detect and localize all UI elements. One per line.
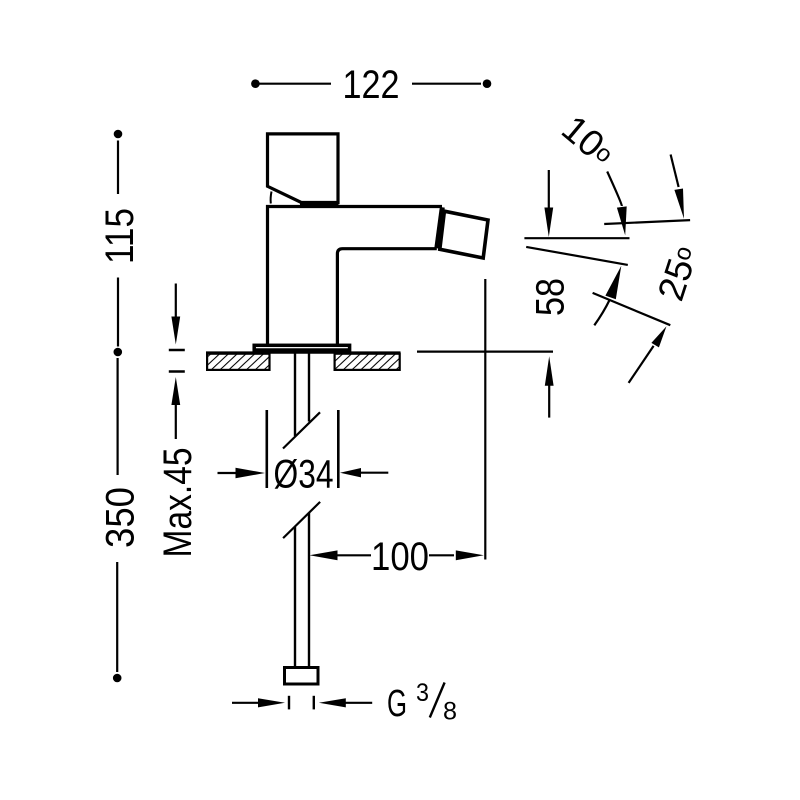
aerator 25 degree axis line [593,293,671,325]
25 degree label [650,241,706,306]
dimension 122 left line [258,83,331,85]
supply pipe left wall upper [294,353,296,436]
dimension O34 left arrow [218,472,238,474]
G3/8 left arrow [232,702,260,704]
svg-text:58: 58 [529,278,573,316]
dimension 350 lower line [116,562,118,672]
dimension 350 upper line [116,358,118,475]
pipe break lower slash [283,502,320,538]
dimension 115 lower line [117,278,119,347]
dimension Max.45 top tick [169,349,185,351]
dimension 115 top dot [114,130,123,139]
dimension 115 upper line [117,141,119,195]
nut [285,668,319,685]
G3/8 tick left [288,696,290,710]
dimension 58 label [529,278,573,316]
10 degree label [554,107,622,173]
dimension 100 left arrow [310,550,338,560]
dimension 122 right dot [483,79,492,88]
svg-text:Max.45: Max.45 [156,448,200,558]
pipe break upper slash [283,412,320,448]
dimension Max.45 upper leader line [175,284,177,318]
dimension Max.45 down arrowhead [171,317,180,345]
dimension 58 lower arrow [545,356,554,386]
svg-text:G: G [387,683,407,725]
dimension 122 left dot [251,79,260,88]
deck hatch left [207,354,269,370]
supply pipe left wall lower [294,527,296,667]
dimension 58 upper arrow [548,170,550,208]
G3/8 right arrow [319,698,346,707]
deck hatch right [335,354,400,370]
svg-text:115: 115 [98,208,142,264]
body left edge [266,205,269,345]
10 degree second arrow [671,155,679,188]
deck surface line [206,351,401,353]
25 degree leader arc [594,300,610,326]
svg-text:122: 122 [343,63,400,107]
dimension 100 right arrow [429,554,454,556]
aerator reference line [604,220,690,224]
svg-text:8: 8 [443,698,457,726]
dimension 350 bottom dot [113,674,122,683]
svg-text:350: 350 [98,487,142,548]
deck level extension line [417,351,553,353]
25 degree second arrow [629,346,654,383]
svg-text:3: 3 [416,679,429,707]
dimension O34 left extension line [265,410,268,488]
dimension Max.45 label [156,448,200,558]
shared dot of 115 and 350 [114,348,123,357]
25 degree arrowhead [605,266,621,299]
dimension O34 right extension line [337,410,340,488]
spout 10 degree axis line [526,247,628,265]
handle lever arc [270,192,273,204]
10 degree leader arc [607,172,622,207]
flange [254,345,349,350]
svg-text:Ø34: Ø34 [274,453,334,497]
svg-text:100: 100 [371,535,429,579]
dimension O34 right arrow [340,468,361,477]
dimension 350 label [98,487,142,548]
dimension Max.45 bottom tick [169,370,185,372]
dimension Max.45 lower leader line [175,405,177,440]
dimension 122 right line [412,83,481,85]
G3/8 tick right [313,696,315,710]
faucet handle [268,134,339,203]
dimension Max.45 up arrowhead [171,377,180,405]
handle base bar [300,202,339,207]
supply pipe right wall lower [308,513,310,667]
supply pipe right wall upper [308,353,310,422]
spout underside and pedestal right edge [337,249,436,345]
10 degree arrowhead [617,206,627,235]
aerator [440,211,488,258]
svg-text:25o: 25o [650,241,706,306]
body top edge [266,205,442,208]
dimension 115 label [98,208,142,264]
dimension 100 extension line [484,279,486,560]
svg-text:10o: 10o [554,107,622,173]
spout end face [437,207,443,248]
outlet horizontal reference line [524,237,629,239]
